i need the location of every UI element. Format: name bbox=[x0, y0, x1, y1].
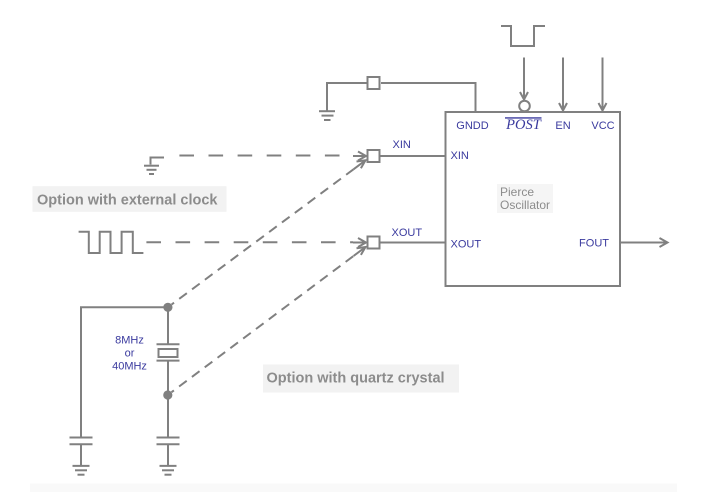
svg-text:XIN: XIN bbox=[451, 150, 469, 162]
IC U1 Pierce Oscillator body bbox=[446, 112, 621, 286]
svg-text:or: or bbox=[125, 348, 135, 360]
label: Option with quartz crystal bbox=[263, 365, 459, 393]
active-low bubble on POST pin bbox=[519, 101, 530, 112]
wire: XIN pin bbox=[380, 155, 446, 157]
ground (C2) bbox=[160, 466, 177, 475]
svg-text:Option with quartz crystal: Option with quartz crystal bbox=[267, 370, 445, 386]
label: Option with external clock bbox=[33, 186, 227, 212]
wire: XOUT pin bbox=[380, 242, 446, 244]
arrow into POST pin bbox=[520, 58, 528, 100]
svg-text:VCC: VCC bbox=[591, 120, 614, 132]
wire: crystal top rail bbox=[81, 307, 168, 437]
dashed wire: external clock ground to XIN bbox=[179, 152, 366, 161]
wire: GNDD pin up and left to connector bbox=[381, 83, 476, 112]
svg-text:Option with external clock: Option with external clock bbox=[37, 192, 218, 208]
svg-text:POST: POST bbox=[505, 117, 542, 133]
clock waveform symbol bbox=[79, 232, 144, 253]
arrow into VCC pin bbox=[599, 58, 607, 111]
arrow into EN pin bbox=[559, 58, 567, 111]
wire: node A to crystal bbox=[167, 307, 169, 343]
label Pierce Oscillator bbox=[497, 184, 553, 213]
connector square (on GNDD wire) bbox=[368, 77, 380, 89]
dashed wire: clock to XOUT bbox=[146, 238, 366, 247]
pin label POST (active low overline) bbox=[505, 117, 542, 133]
crystal Y1 bbox=[157, 344, 180, 360]
svg-text:EN: EN bbox=[555, 120, 570, 132]
capacitor C2 bbox=[157, 438, 180, 445]
wire: connector to ground (top left) bbox=[327, 83, 367, 111]
svg-text:40MHz: 40MHz bbox=[112, 361, 147, 373]
junction node B bbox=[163, 390, 172, 399]
svg-text:Oscillator: Oscillator bbox=[500, 198, 550, 212]
value label 8MHz or 40MHz bbox=[112, 335, 147, 373]
junction node A bbox=[163, 303, 172, 312]
pulse waveform symbol (POST input) bbox=[501, 26, 545, 46]
svg-text:XIN: XIN bbox=[393, 139, 411, 151]
svg-text:Pierce: Pierce bbox=[500, 185, 534, 199]
svg-text:8MHz: 8MHz bbox=[115, 335, 144, 347]
connector square XIN bbox=[368, 150, 380, 162]
svg-text:GNDD: GNDD bbox=[456, 120, 488, 132]
ground (GNDD wire) bbox=[319, 111, 335, 120]
svg-text:XOUT: XOUT bbox=[392, 227, 423, 239]
wire: crystal to node B bbox=[167, 361, 169, 394]
wire: node B to capacitor C2 bbox=[167, 395, 169, 438]
dashed wire: node A to XIN connector bbox=[172, 160, 366, 304]
wire: C2 to ground bbox=[167, 444, 169, 465]
FOUT output arrow bbox=[620, 238, 668, 247]
ground (C1) bbox=[73, 466, 90, 475]
svg-text:XOUT: XOUT bbox=[451, 239, 482, 251]
capacitor C1 bbox=[70, 438, 93, 445]
svg-text:FOUT: FOUT bbox=[579, 238, 609, 250]
ground (external clock option) bbox=[144, 158, 164, 175]
wire: C1 to ground bbox=[80, 444, 82, 465]
dashed wire: node B to XOUT connector bbox=[172, 247, 366, 392]
bottom page band bbox=[30, 484, 677, 492]
connector square XOUT bbox=[368, 237, 380, 249]
